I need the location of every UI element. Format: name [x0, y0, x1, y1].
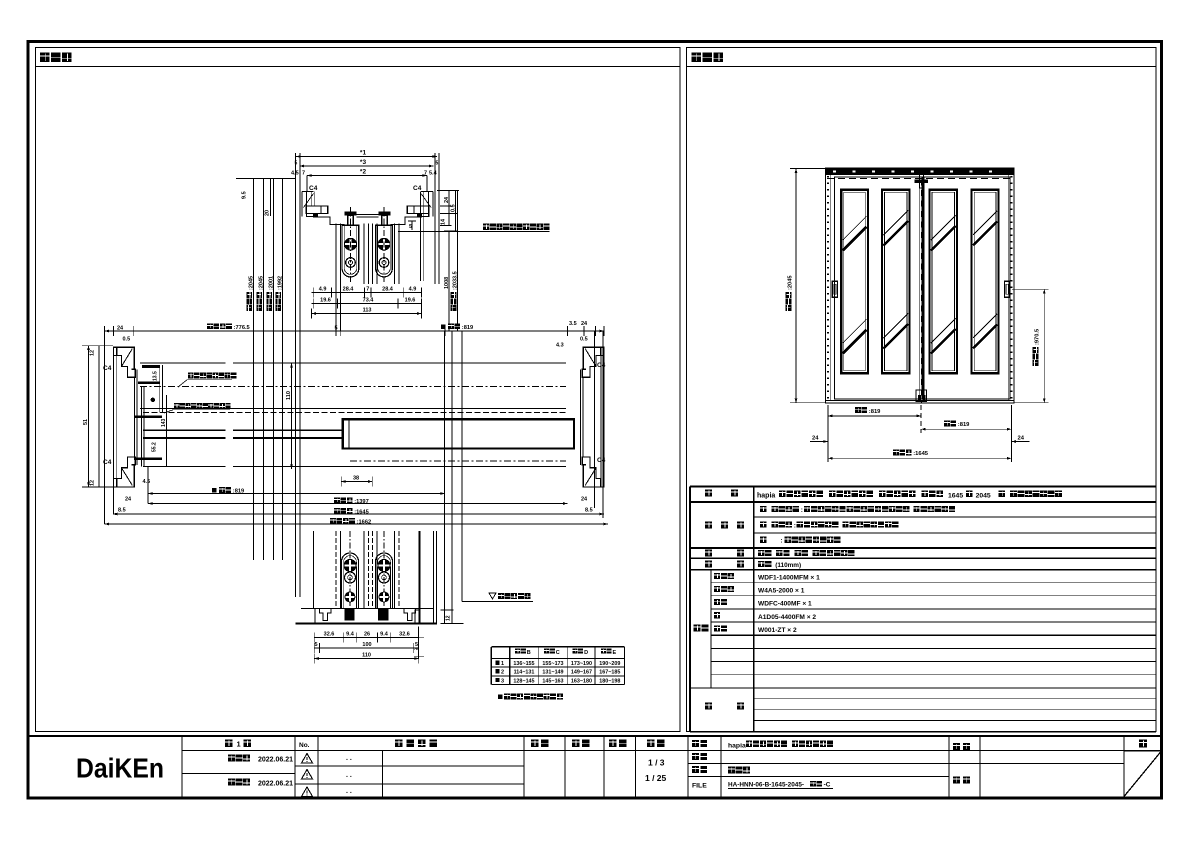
top rail detail - dimension line *2 — [307, 175, 427, 177]
svg-text::819: :819 — [958, 422, 970, 428]
bottom rail black block right — [378, 609, 388, 621]
svg-text::2001: :2001 — [268, 276, 274, 290]
svg-text:24: 24 — [125, 497, 132, 503]
svg-text:4.5: 4.5 — [143, 479, 151, 485]
hanger roller right lower wheel — [379, 258, 389, 268]
bottom rail black block left — [344, 609, 354, 621]
left extension verticals below frame — [104, 331, 106, 524]
svg-text::819: :819 — [233, 489, 244, 495]
svg-text:28.4: 28.4 — [382, 286, 394, 292]
svg-text:WDFC-400MF × 1: WDFC-400MF × 1 — [758, 601, 812, 608]
top detail right chamfer C4 leader — [421, 194, 431, 208]
right door glass pane 3 with reflections — [929, 190, 957, 374]
revision divider vertical — [382, 750, 384, 797]
svg-text:24: 24 — [581, 321, 588, 327]
title block verticals — [181, 736, 183, 797]
svg-text:DaiKEn: DaiKEn — [76, 753, 164, 784]
svg-text:8.5: 8.5 — [585, 508, 593, 514]
left panel title separator — [36, 66, 681, 68]
bottom rail T slot left — [320, 609, 331, 621]
top rail detail - dimension line *1 — [296, 156, 437, 158]
upper door bullet dot — [151, 398, 155, 402]
svg-text:*2: *2 — [360, 169, 367, 176]
top detail left extension line pair — [294, 153, 296, 597]
hanger bolt left — [345, 212, 357, 216]
top detail lower dim row 2: 19.6 73.4 19.6 — [312, 303, 422, 305]
svg-text:155~173: 155~173 — [542, 661, 563, 667]
svg-text:(110mm): (110mm) — [775, 562, 801, 569]
svg-text::776.5: :776.5 — [234, 325, 250, 331]
hanger centerlines dash-dot — [350, 207, 352, 284]
svg-text:190~209: 190~209 — [599, 661, 620, 667]
spec second content — [758, 561, 764, 567]
right frame chamfer C4 bottom diagonal — [585, 468, 596, 485]
warning triangle 2 — [302, 770, 313, 780]
svg-text:5.4: 5.4 — [429, 171, 438, 177]
top rail detail - dimension line *3 — [300, 165, 434, 167]
svg-text:7: 7 — [424, 171, 427, 177]
svg-text:W001-ZT × 2: W001-ZT × 2 — [758, 627, 797, 634]
svg-text:HA-HNN-06-B-1645-2045-: HA-HNN-06-B-1645-2045- — [728, 782, 804, 789]
height dim rotated label uchisotodaka 2045 — [246, 292, 252, 311]
bottom detail door walls — [335, 531, 337, 609]
svg-text:13.5: 13.5 — [153, 371, 159, 381]
svg-text:C4: C4 — [597, 457, 606, 464]
right frame profile top hook — [582, 347, 604, 377]
left panel title label dammenzu — [40, 53, 50, 63]
svg-text:19.6: 19.6 — [405, 297, 416, 303]
svg-text::: : — [801, 507, 803, 514]
svg-text:28.4: 28.4 — [343, 286, 355, 292]
vertical dim line 1008 and 2033.5 — [448, 231, 450, 331]
upper door end cap bars — [142, 365, 160, 368]
svg-text:0.5: 0.5 — [451, 204, 457, 212]
svg-text:24: 24 — [581, 497, 588, 503]
shukushaku header — [647, 740, 655, 748]
sliding door panel (near) thick outline — [343, 419, 574, 448]
svg-text:1: 1 — [237, 740, 241, 749]
right door handle — [1005, 281, 1010, 297]
svg-text:24: 24 — [812, 435, 819, 441]
svg-text:100: 100 — [362, 642, 371, 648]
svg-text:1645: 1645 — [948, 493, 963, 500]
front view frame top band with dashes — [826, 168, 1015, 175]
svg-text:0.5: 0.5 — [123, 337, 131, 343]
svg-text:. .: . . — [346, 772, 352, 779]
kumiin label — [953, 777, 960, 784]
svg-text:FILE: FILE — [692, 783, 707, 790]
right panel title label shomenzu — [692, 53, 702, 63]
hanger bolt right — [379, 212, 391, 216]
left frame chamfer C4 top diagonal — [122, 349, 133, 367]
bottom detail dim row 3: 110 — [314, 658, 419, 660]
svg-text::2045: :2045 — [248, 276, 254, 290]
right door glass pane 4 with reflections — [972, 190, 999, 374]
svg-text:3.5: 3.5 — [569, 321, 577, 327]
svg-text::1662: :1662 — [357, 520, 372, 526]
middle section top boundary line — [140, 362, 226, 364]
kakunin header — [572, 740, 580, 748]
height dim rotated label yukodaka 2001 — [266, 292, 272, 311]
svg-text:163~180: 163~180 — [571, 679, 592, 685]
left door handle — [832, 281, 837, 297]
dai 1 han header — [225, 740, 233, 748]
callout hikido shiyozu leader — [188, 373, 194, 379]
bottom detail dim row 2: 5 100 5 — [314, 647, 419, 649]
svg-text:9.5: 9.5 — [242, 191, 248, 199]
dim line 1662 widest — [105, 523, 609, 525]
right frame profile bottom hook — [582, 457, 604, 487]
svg-text:5: 5 — [314, 642, 317, 648]
middle section bottom boundary line — [143, 466, 226, 468]
center overlap verticals — [918, 177, 920, 399]
hanger roller left upper wheel — [345, 238, 357, 250]
left frame inner face pair — [134, 377, 136, 457]
hinban row 3 WDFC-400MF — [714, 599, 720, 605]
svg-text:2045: 2045 — [976, 493, 991, 500]
bottom rail T slot right — [404, 609, 415, 621]
spec finish row 1 panel — [760, 506, 766, 512]
svg-text:19.6: 19.6 — [320, 297, 331, 303]
height dim rotated label wakusotodaka 2045 — [256, 292, 262, 311]
top detail lower dim row 3: 113 — [312, 313, 422, 315]
bottom rail small dim 13.5 rotated — [441, 609, 454, 611]
svg-text:7: 7 — [302, 171, 305, 177]
No column row lines — [295, 765, 524, 767]
title header row line — [182, 749, 1162, 751]
svg-text:2022.06.21: 2022.06.21 — [258, 781, 293, 788]
svg-text:C4: C4 — [413, 185, 422, 192]
dim line wakusotohaba 1645 — [113, 513, 604, 515]
svg-text::970.5: :970.5 — [1035, 329, 1041, 345]
left door glass pane 1 with reflections — [841, 190, 868, 374]
spec row label yoshiki — [705, 489, 712, 496]
dim 38 under door — [341, 481, 372, 483]
svg-text:5: 5 — [415, 642, 418, 648]
front view bottom dim door1 819 — [828, 415, 921, 417]
svg-text:8.5: 8.5 — [118, 508, 126, 514]
svg-text:4.5: 4.5 — [291, 171, 299, 177]
top detail right-side vertical dims 24 0.5 14 — [448, 191, 450, 226]
svg-text:110: 110 — [362, 652, 371, 658]
spec handle content — [758, 550, 764, 556]
left frame chamfer C4 bottom diagonal — [122, 468, 133, 485]
svg-text:32.6: 32.6 — [324, 631, 335, 637]
svg-text:180~198: 180~198 — [599, 679, 620, 685]
svg-text:26: 26 — [364, 631, 370, 637]
bottom roller housing right — [376, 553, 393, 609]
bottom rail base line — [295, 622, 437, 624]
front view handle height dim 970.5 — [1043, 289, 1045, 403]
left frame profile top hook — [114, 347, 136, 377]
right frame vertical dim lines 24 8.5 — [594, 331, 596, 508]
height dim rotated label 1992 — [275, 292, 281, 311]
svg-text::2045: :2045 — [788, 275, 794, 290]
hanging rail callout leader — [398, 231, 550, 233]
spec finish row 2 frame edge — [760, 521, 766, 527]
bottom rail band — [301, 608, 434, 610]
svg-text:2022.06.21: 2022.06.21 — [258, 757, 293, 764]
svg-text:3: 3 — [501, 679, 504, 685]
table note: filled square is 1645 width case — [498, 695, 503, 700]
hanging rail callout text tsurido rail betsukonpo — [483, 224, 489, 230]
dim label yuko kaiko 776.5 — [207, 323, 213, 329]
svg-text:B: B — [527, 650, 531, 656]
svg-text:1 / 25: 1 / 25 — [645, 773, 667, 783]
height dimension vertical lines group — [252, 179, 254, 561]
svg-text:9.4: 9.4 — [346, 631, 355, 637]
upper door mid lines — [140, 408, 566, 410]
svg-text:12: 12 — [90, 480, 96, 486]
center dashed line — [920, 169, 922, 403]
front view frame bottom lines — [826, 400, 1015, 402]
small dim 2 below-left — [418, 626, 420, 658]
warning triangle 3 — [302, 787, 313, 797]
top detail right step profile — [390, 214, 428, 225]
svg-text:149~167: 149~167 — [571, 670, 592, 676]
svg-text:4.9: 4.9 — [409, 286, 417, 292]
left frame profile bottom hook — [114, 457, 136, 487]
right frame outer face double wall — [603, 347, 605, 487]
dim label door width 819 top — [441, 325, 446, 330]
top detail rail surface between hangers — [356, 216, 378, 218]
spec finish row 3 frame — [760, 537, 766, 543]
upper door mid bars — [134, 416, 162, 419]
svg-text:24: 24 — [1018, 435, 1025, 441]
bottom rail left end bracket — [415, 610, 419, 624]
warning triangle 1 — [302, 754, 313, 764]
spec row label second — [705, 560, 712, 567]
zumei label and sanmenzu — [692, 766, 699, 773]
front view frame right band dotted — [1008, 175, 1010, 401]
bottom roller housing left — [342, 553, 359, 609]
track thick lines left of near door — [143, 429, 226, 431]
svg-text::: : — [794, 522, 796, 529]
svg-text:114~131: 114~131 — [514, 670, 535, 676]
right frame inner face pair — [582, 377, 584, 457]
bottom roller left wheels — [344, 559, 356, 571]
kaitei rireki header — [395, 740, 403, 748]
bottom roller centerlines dash-dot — [349, 531, 351, 620]
svg-text:4.9: 4.9 — [319, 286, 327, 292]
top detail right horizontal strip — [407, 206, 429, 214]
svg-text:W4A5-2000 × 1: W4A5-2000 × 1 — [758, 588, 805, 595]
top detail right extension line pair — [434, 153, 436, 284]
svg-text:128~145: 128~145 — [513, 679, 534, 685]
small 5 dim flag — [408, 221, 416, 230]
svg-text::819: :819 — [462, 325, 473, 331]
bottom detail vertical extension lines — [419, 531, 421, 623]
top detail left step profile — [306, 214, 344, 225]
hinban row 5 W001-ZT — [714, 625, 720, 631]
hinban row 2 W4A5-2000 — [714, 586, 720, 592]
author divider — [949, 763, 1124, 765]
left frame outer face double wall — [113, 347, 115, 487]
ext lines flange to dim *2 — [306, 176, 308, 192]
svg-text:A1D05-4400FM × 2: A1D05-4400FM × 2 — [758, 614, 816, 621]
rotated dim 110 center — [291, 363, 293, 469]
top detail left horizontal strip — [306, 206, 328, 214]
page column line — [1124, 750, 1162, 752]
svg-text:167~185: 167~185 — [599, 670, 620, 676]
svg-text:0.5: 0.5 — [580, 337, 588, 343]
left panel frame (cross-section view) — [36, 48, 681, 732]
callout hikido U bolt cap — [174, 403, 179, 408]
upper door hidden dash-dot line — [140, 386, 566, 388]
seitei-bi row — [182, 773, 295, 775]
svg-text:110: 110 — [286, 391, 292, 400]
svg-text:1008: 1008 — [444, 277, 450, 289]
top detail inner jamb lines left — [310, 191, 312, 206]
door panel top walls in section — [335, 224, 337, 332]
bottom center floor guide — [916, 390, 927, 401]
page column header — [1139, 740, 1147, 748]
top detail right jamb profile — [421, 191, 433, 216]
hinban label — [692, 753, 699, 760]
svg-text::1992: :1992 — [277, 276, 283, 290]
svg-text:14: 14 — [441, 218, 447, 225]
svg-text:hapia: hapia — [757, 493, 775, 500]
front view frame left band dotted — [830, 175, 832, 401]
right door outline — [923, 177, 1010, 399]
floor rail callout leader — [462, 601, 533, 603]
hanger roller housing right — [376, 225, 393, 277]
svg-text:hapia: hapia — [728, 742, 746, 749]
svg-text:4.3: 4.3 — [556, 343, 564, 349]
svg-text:55.2: 55.2 — [152, 442, 158, 452]
bottom roller right wheels — [378, 559, 390, 571]
svg-text::1397: :1397 — [354, 499, 369, 505]
dim line 819 bottom-left door — [148, 493, 445, 495]
spec row label shiage — [705, 522, 712, 529]
lower dash-dot line — [350, 460, 566, 462]
bottom detail dim row 1: 32.6 9.4 26 9.4 32.6 — [314, 637, 419, 639]
floor rail callout text rail aluminum — [489, 593, 496, 599]
front view 24 dims left and right — [810, 441, 828, 443]
svg-text:1 / 3: 1 / 3 — [648, 758, 665, 768]
hinban row 4 A1D05-4400FM — [714, 612, 720, 618]
svg-text:136~155: 136~155 — [513, 661, 534, 667]
middle section top dim line y=331 — [105, 330, 604, 332]
svg-text:173~190: 173~190 — [571, 661, 592, 667]
svg-text:E: E — [613, 650, 617, 656]
name rows lines — [688, 763, 949, 765]
top detail inner jamb lines right — [420, 191, 422, 281]
hanger roller right upper wheel — [378, 238, 390, 250]
left frame vertical dim line with 12 labels — [88, 346, 90, 487]
svg-text:12: 12 — [446, 615, 452, 621]
svg-text:5: 5 — [409, 224, 412, 230]
hinban row 1 WDF1-1400MFM — [714, 573, 720, 579]
svg-text:20: 20 — [265, 210, 271, 216]
svg-text:No.: No. — [299, 742, 310, 749]
svg-text:73.4: 73.4 — [363, 297, 375, 303]
kaitei-bi row — [228, 779, 235, 786]
front view bottom dim door2 819 — [921, 428, 1012, 430]
svg-text:131~149: 131~149 — [542, 670, 563, 676]
front view height dim 2045 — [795, 169, 797, 403]
svg-text:38: 38 — [353, 475, 359, 481]
svg-text:24: 24 — [117, 325, 124, 331]
door end inner vertical — [165, 395, 167, 467]
sakusei header — [609, 740, 617, 748]
shonin header — [531, 740, 539, 748]
top center hanger bracket — [920, 174, 924, 188]
svg-text::: : — [780, 538, 782, 545]
svg-text:*1: *1 — [360, 150, 367, 157]
svg-text:-C: -C — [824, 782, 831, 789]
hanger roller housing left — [342, 225, 359, 277]
svg-text:2: 2 — [501, 670, 504, 676]
title block top line — [28, 735, 1162, 737]
svg-text:143: 143 — [161, 418, 167, 427]
dimension range table — [491, 646, 624, 648]
svg-text::1645: :1645 — [354, 510, 369, 516]
top detail left jamb profile — [302, 191, 314, 216]
svg-text:32.6: 32.6 — [399, 631, 410, 637]
svg-text::819: :819 — [869, 409, 881, 415]
front view bottom dim 1645 — [828, 457, 1012, 459]
svg-text::1645: :1645 — [913, 451, 929, 457]
svg-text::2045: :2045 — [258, 276, 264, 290]
front view outer frame — [826, 168, 1015, 403]
specification table grid — [690, 486, 1156, 488]
svg-text:9.4: 9.4 — [380, 631, 389, 637]
upper door edge vertical pair — [141, 387, 143, 467]
svg-text:7: 7 — [366, 286, 369, 292]
svg-text:C: C — [556, 650, 560, 656]
svg-text:12: 12 — [90, 350, 96, 356]
svg-text::2033.5: :2033.5 — [453, 271, 459, 290]
svg-text:. .: . . — [346, 755, 352, 762]
svg-text:1: 1 — [501, 661, 504, 667]
right frame chamfer C4 top diagonal — [585, 349, 596, 367]
left door glass pane 2 with reflections — [882, 190, 910, 374]
svg-text:24: 24 — [444, 196, 450, 203]
svg-text:D: D — [584, 650, 588, 656]
svg-text:113: 113 — [363, 307, 372, 313]
svg-text:145~163: 145~163 — [542, 679, 563, 685]
svg-text:51: 51 — [83, 419, 89, 425]
front view top hidden dash line — [827, 178, 1013, 180]
meisho label and content — [692, 740, 699, 747]
left door outline — [835, 177, 922, 399]
hanger roller left lower wheel — [346, 258, 356, 268]
right panel title separator — [687, 66, 1157, 68]
spec row label totte — [705, 550, 712, 557]
biko label — [705, 703, 712, 710]
svg-text:5: 5 — [436, 161, 439, 167]
hinban label — [694, 625, 701, 632]
svg-text:*3: *3 — [360, 159, 367, 166]
svg-text:WDF1-1400MFM × 1: WDF1-1400MFM × 1 — [758, 574, 820, 581]
top detail right foot block — [417, 214, 422, 218]
sakusha label — [953, 743, 960, 750]
svg-text:. .: . . — [346, 788, 352, 795]
small dim 20 rotated — [270, 179, 272, 217]
svg-text:5: 5 — [334, 325, 337, 331]
page diagonal — [1124, 752, 1161, 797]
top detail left chamfer C4 leader — [304, 194, 314, 208]
right panel frame (front view) — [687, 48, 1157, 732]
top detail lower dim row 1: 4.9 28.4 7 28.4 4.9 — [312, 292, 422, 294]
top detail left foot block — [313, 214, 318, 218]
svg-text:C4: C4 — [309, 185, 318, 192]
dim line kaikohaba 1397 — [148, 503, 568, 505]
